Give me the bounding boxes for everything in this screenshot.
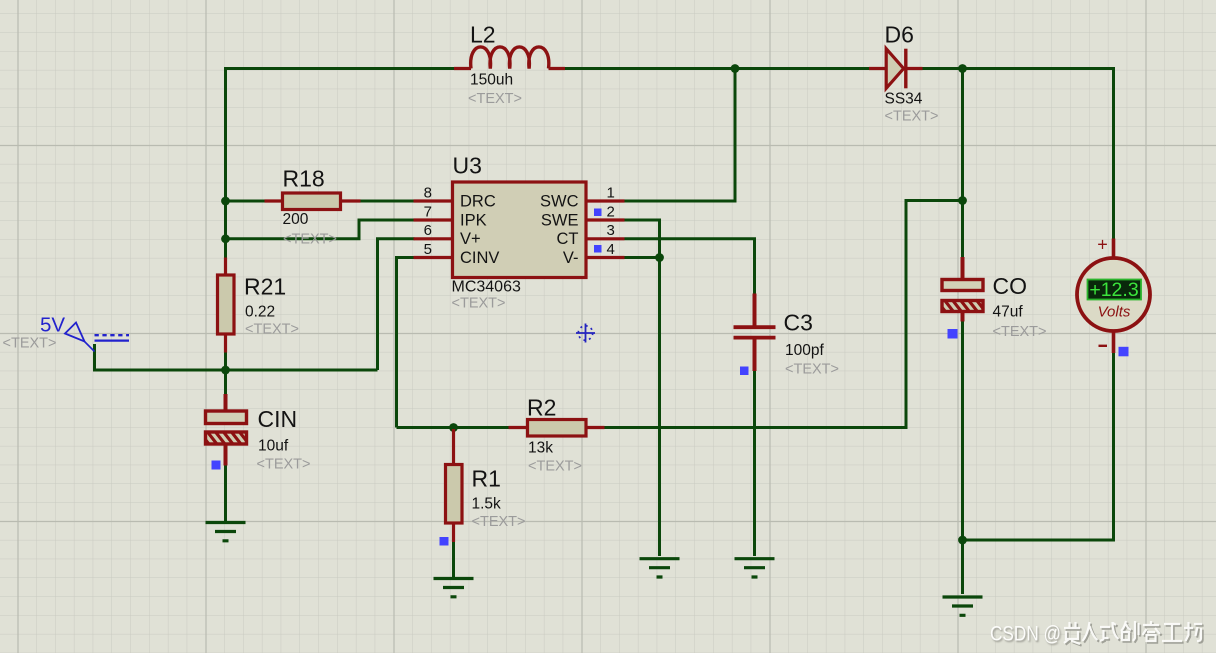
wire R18 row left (226, 200, 265, 203)
node D6/CO top rail (958, 64, 967, 73)
svg-text:4: 4 (607, 241, 615, 258)
svg-text:<TEXT>: <TEXT> (785, 362, 839, 378)
wire CIN top (224, 370, 227, 394)
capacitor C3 100pf (734, 294, 840, 378)
svg-text:2: 2 (607, 203, 615, 220)
U3 pin names (460, 192, 579, 266)
wire pin1 SWC to top rail (625, 67, 736, 201)
voltmeter marker (1119, 347, 1129, 357)
svg-text:R18: R18 (283, 166, 325, 192)
svg-text:R1: R1 (472, 466, 501, 492)
C3 marker (740, 367, 749, 376)
voltmeter U? +12.3 Volts (1077, 235, 1150, 354)
node R2/output (958, 196, 967, 205)
wire CIN bottom to ground (224, 466, 227, 522)
junction node dots (221, 64, 967, 544)
wire node to pin7 (226, 220, 415, 239)
pin 7 stub (414, 218, 453, 221)
wire C3 bottom to ground (753, 371, 756, 556)
svg-text:<TEXT>: <TEXT> (993, 324, 1047, 340)
power source 5V (3, 314, 130, 352)
svg-text:150uh: 150uh (470, 72, 513, 89)
capacitor CIN 10uf (206, 394, 311, 473)
wire top rail right segment (923, 67, 1114, 70)
pin 3 stub (586, 237, 625, 240)
wire top rail left segment (224, 67, 454, 70)
wire R1 bottom to ground (452, 542, 455, 577)
svg-text:CIN: CIN (258, 406, 298, 432)
wire pin6 V+ down to 5V rail (378, 239, 415, 370)
pin 8 stub (414, 199, 453, 202)
svg-text:100pf: 100pf (785, 342, 824, 359)
wire pin3 CT to C3 (625, 239, 755, 294)
ground C3 (735, 559, 775, 577)
node CIN/5V rail (221, 366, 230, 375)
pin 5 stub (414, 256, 453, 259)
node R18/left rail (221, 197, 230, 206)
svg-text:<TEXT>: <TEXT> (472, 514, 526, 530)
wire 5V rail (95, 344, 378, 370)
diode D6 SS34 (869, 22, 939, 125)
node CO/voltmeter ground (958, 536, 967, 545)
svg-text:<TEXT>: <TEXT> (468, 91, 522, 107)
svg-text:<TEXT>: <TEXT> (885, 109, 939, 125)
wire voltmeter top (1112, 67, 1115, 239)
node R21 top (221, 234, 230, 243)
pin 4 stub (586, 256, 625, 259)
pin 4 marker (594, 245, 602, 253)
svg-text:SS34: SS34 (885, 91, 923, 108)
svg-text:47uf: 47uf (993, 304, 1024, 321)
svg-text:CSDN @: CSDN @ (990, 623, 1061, 646)
svg-text:U3: U3 (453, 153, 482, 179)
svg-text:7: 7 (424, 203, 432, 220)
ground CO/voltmeter (943, 597, 983, 615)
svg-text:IPK: IPK (460, 211, 487, 229)
svg-text:SWE: SWE (541, 211, 579, 229)
GREEN WIRES (95, 67, 1114, 594)
resistor R2 (509, 395, 605, 475)
resistor R1 (446, 429, 526, 542)
svg-text:<TEXT>: <TEXT> (3, 336, 57, 352)
svg-text:+: + (1097, 235, 1108, 255)
svg-text:Volts: Volts (1098, 304, 1131, 321)
svg-text:CO: CO (993, 273, 1028, 299)
svg-text:200: 200 (283, 211, 309, 228)
wire pin5 CINV down to R2 row (397, 258, 415, 428)
wire top rail mid segment (565, 67, 869, 70)
wire output node down to CO (961, 67, 964, 257)
origin marker (576, 324, 595, 343)
wire R21 bottom (224, 353, 227, 371)
svg-text:DRC: DRC (460, 192, 496, 210)
svg-text:V+: V+ (460, 230, 481, 248)
pin 6 stub (414, 237, 453, 240)
wire CO bottom to ground (961, 322, 964, 595)
wire voltmeter bottom to ground node (963, 353, 1114, 541)
R1 marker (440, 537, 449, 546)
svg-text:6: 6 (424, 222, 432, 239)
wire R18 row right to pin8 (361, 200, 415, 203)
svg-text:8: 8 (424, 184, 432, 201)
svg-text:R2: R2 (527, 395, 556, 421)
svg-text:1: 1 (607, 184, 615, 201)
svg-text:L2: L2 (470, 22, 496, 48)
CO marker (948, 329, 958, 339)
svg-text:D6: D6 (885, 22, 914, 48)
pin 2 marker (594, 209, 602, 217)
svg-text:1.5k: 1.5k (472, 496, 502, 513)
ground CIN (206, 523, 246, 541)
capacitor CO 47uf (942, 257, 1047, 340)
watermark CSDN (990, 621, 1204, 646)
inductor L2 (454, 22, 565, 108)
U3 pin numbers (424, 184, 615, 257)
wire R2 output up and to output node (605, 201, 963, 428)
node R1/R2 (449, 423, 458, 432)
svg-text:<TEXT>: <TEXT> (245, 322, 299, 338)
svg-text:<TEXT>: <TEXT> (257, 457, 311, 473)
node SWC/top rail (731, 64, 740, 73)
pin 1 stub (586, 199, 625, 202)
svg-text:+12.3: +12.3 (1089, 279, 1138, 301)
svg-text:CINV: CINV (460, 249, 499, 267)
wire left vertical from top rail to R21 (224, 67, 227, 258)
svg-text:V-: V- (563, 249, 579, 267)
CIN marker (212, 461, 221, 470)
ground R1 (434, 579, 474, 597)
resistor R21 (218, 258, 300, 353)
svg-text:5V: 5V (40, 314, 65, 337)
svg-text:<TEXT>: <TEXT> (283, 232, 337, 248)
svg-text:SWC: SWC (540, 192, 579, 210)
svg-text:13k: 13k (528, 440, 553, 457)
op-amp U3 MC34063 body (414, 153, 625, 312)
wire pin2 SWE down (625, 220, 660, 258)
wire R2 row left (397, 426, 509, 429)
svg-text:R21: R21 (244, 274, 286, 300)
pin 2 stub (586, 218, 625, 221)
svg-text:5: 5 (424, 241, 432, 258)
svg-text:C3: C3 (784, 310, 813, 336)
node pin2/pin4 (655, 253, 664, 262)
svg-text:<TEXT>: <TEXT> (528, 459, 582, 475)
resistor R18 (265, 166, 361, 248)
svg-text:10uf: 10uf (258, 438, 289, 455)
svg-text:CT: CT (557, 230, 579, 248)
ground pin4 net (640, 559, 680, 577)
svg-text:3: 3 (607, 222, 615, 239)
svg-text:0.22: 0.22 (245, 304, 275, 321)
svg-text:<TEXT>: <TEXT> (452, 296, 506, 312)
wire pin4 V- to ground (625, 258, 660, 557)
svg-text:MC34063: MC34063 (452, 279, 521, 296)
